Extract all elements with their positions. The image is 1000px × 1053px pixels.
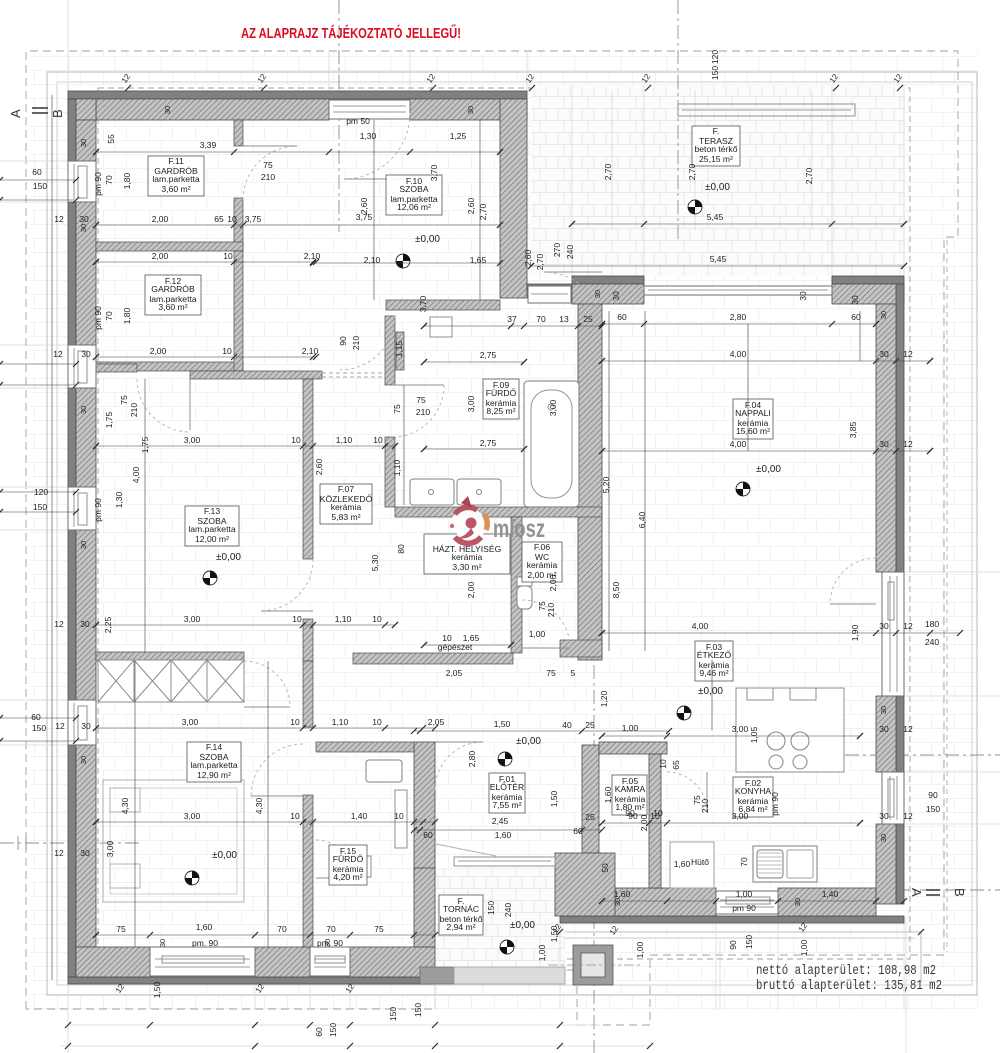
svg-text:FÜRDŐ: FÜRDŐ: [333, 854, 364, 864]
svg-text:2,00: 2,00: [639, 814, 649, 831]
svg-text:150: 150: [744, 935, 754, 949]
svg-text:A: A: [8, 109, 23, 118]
svg-text:2,60: 2,60: [466, 197, 476, 214]
svg-text:2,10: 2,10: [302, 346, 319, 356]
svg-text:10: 10: [372, 717, 382, 727]
svg-text:60: 60: [314, 1027, 324, 1037]
svg-text:30: 30: [163, 106, 172, 114]
svg-text:30: 30: [79, 224, 88, 232]
svg-text:3,60 m²: 3,60 m²: [158, 302, 187, 312]
svg-text:12,90 m²: 12,90 m²: [197, 770, 231, 780]
svg-text:2,70: 2,70: [687, 163, 697, 180]
svg-text:beton térkő: beton térkő: [695, 144, 738, 154]
svg-text:lam.parketta: lam.parketta: [188, 524, 236, 534]
svg-text:4,00: 4,00: [131, 466, 141, 483]
svg-text:2,25: 2,25: [103, 616, 113, 633]
svg-text:1,10: 1,10: [336, 435, 353, 445]
svg-text:210: 210: [351, 336, 361, 350]
svg-text:150: 150: [413, 1003, 423, 1017]
svg-text:30: 30: [466, 106, 475, 114]
svg-text:70: 70: [104, 175, 114, 185]
svg-text:Hütő: Hütő: [691, 857, 709, 867]
svg-text:lam.parketta: lam.parketta: [152, 174, 200, 184]
svg-text:10: 10: [222, 346, 232, 356]
svg-text:3,70: 3,70: [418, 295, 428, 312]
svg-text:5,45: 5,45: [707, 212, 724, 222]
svg-text:3,00: 3,00: [184, 435, 201, 445]
svg-text:2,45: 2,45: [492, 816, 509, 826]
svg-text:90: 90: [728, 940, 738, 950]
svg-text:30: 30: [593, 290, 602, 298]
svg-text:10: 10: [227, 214, 237, 224]
svg-text:30: 30: [879, 834, 888, 842]
svg-text:75: 75: [119, 395, 129, 405]
svg-text:3,00: 3,00: [184, 811, 201, 821]
svg-text:2,70: 2,70: [478, 203, 488, 220]
svg-text:10: 10: [653, 808, 663, 818]
svg-text:30: 30: [81, 349, 91, 359]
svg-text:ELŐTÉR: ELŐTÉR: [490, 782, 524, 792]
svg-text:50: 50: [600, 863, 610, 873]
svg-text:90: 90: [338, 336, 348, 346]
svg-text:2,10: 2,10: [364, 255, 381, 265]
svg-text:9,46 m²: 9,46 m²: [699, 668, 728, 678]
svg-text:1,00: 1,00: [537, 944, 547, 961]
svg-text:F.07: F.07: [338, 484, 354, 494]
svg-text:3,00: 3,00: [184, 614, 201, 624]
svg-text:1,20: 1,20: [599, 690, 609, 707]
svg-text:4,20 m²: 4,20 m²: [333, 872, 362, 882]
svg-text:210: 210: [261, 172, 275, 182]
svg-text:60: 60: [617, 312, 627, 322]
svg-text:90: 90: [928, 790, 938, 800]
svg-text:1,50: 1,50: [549, 790, 559, 807]
svg-text:1,25: 1,25: [450, 131, 467, 141]
svg-text:10: 10: [290, 717, 300, 727]
svg-text:30: 30: [613, 898, 622, 906]
svg-text:4,00: 4,00: [730, 349, 747, 359]
svg-text:5,30: 5,30: [370, 554, 380, 571]
svg-text:±0,00: ±0,00: [756, 464, 781, 475]
svg-text:1,00: 1,00: [622, 723, 639, 733]
svg-text:4,30: 4,30: [120, 797, 130, 814]
svg-text:12: 12: [53, 349, 63, 359]
svg-text:5: 5: [571, 668, 576, 678]
svg-text:37: 37: [507, 314, 517, 324]
svg-text:10: 10: [223, 251, 233, 261]
svg-text:±0,00: ±0,00: [516, 736, 541, 747]
svg-text:30: 30: [879, 724, 889, 734]
svg-text:kerámia: kerámia: [527, 560, 558, 570]
svg-text:60: 60: [851, 312, 861, 322]
svg-text:3,70: 3,70: [429, 164, 439, 181]
svg-text:240: 240: [565, 245, 575, 259]
svg-text:70: 70: [739, 857, 749, 867]
svg-text:65: 65: [214, 214, 224, 224]
svg-text:bruttó alapterület: 135,81 m2: bruttó alapterület: 135,81 m2: [756, 978, 942, 994]
svg-text:3,60 m²: 3,60 m²: [161, 184, 190, 194]
svg-text:2,70: 2,70: [804, 167, 814, 184]
svg-text:12: 12: [55, 721, 65, 731]
svg-text:B: B: [50, 109, 65, 118]
svg-text:12: 12: [903, 439, 913, 449]
svg-text:5,45: 5,45: [710, 254, 727, 264]
svg-text:±0,00: ±0,00: [212, 850, 237, 861]
svg-text:10: 10: [373, 435, 383, 445]
svg-text:5,83 m²: 5,83 m²: [331, 512, 360, 522]
svg-text:±0,00: ±0,00: [216, 552, 241, 563]
svg-text:75: 75: [374, 924, 384, 934]
svg-text:pm 50: pm 50: [346, 116, 370, 126]
svg-text:210: 210: [416, 407, 430, 417]
svg-text:SZOBA: SZOBA: [399, 184, 428, 194]
svg-text:2,80: 2,80: [467, 750, 477, 767]
svg-text:FÜRDŐ: FÜRDŐ: [486, 388, 517, 398]
svg-text:8,25 m²: 8,25 m²: [486, 406, 515, 416]
svg-text:TORNÁC: TORNÁC: [443, 904, 479, 914]
svg-text:1,60: 1,60: [495, 830, 512, 840]
svg-text:30: 30: [323, 939, 332, 947]
svg-text:12: 12: [54, 848, 64, 858]
svg-text:270: 270: [552, 243, 562, 257]
svg-text:A: A: [909, 888, 924, 897]
svg-text:2,60: 2,60: [523, 249, 533, 266]
svg-text:70: 70: [104, 311, 114, 321]
svg-text:30: 30: [80, 848, 90, 858]
svg-text:70: 70: [277, 924, 287, 934]
svg-text:pm 90: pm 90: [770, 792, 780, 816]
svg-text:3,00: 3,00: [732, 811, 749, 821]
svg-text:NAPPALI: NAPPALI: [735, 408, 771, 418]
svg-text:30: 30: [158, 939, 167, 947]
svg-text:75: 75: [546, 668, 556, 678]
svg-text:pm 90: pm 90: [732, 903, 756, 913]
svg-text:1,00: 1,00: [799, 939, 809, 956]
svg-text:30: 30: [79, 214, 89, 224]
svg-text:90: 90: [625, 808, 635, 818]
svg-text:1,05: 1,05: [749, 726, 759, 743]
svg-text:2,94 m²: 2,94 m²: [446, 922, 475, 932]
svg-text:12,06 m²: 12,06 m²: [397, 202, 431, 212]
svg-text:75: 75: [416, 395, 426, 405]
svg-text:1,15: 1,15: [394, 340, 404, 357]
svg-text:12: 12: [54, 214, 64, 224]
svg-text:2,00: 2,00: [548, 574, 558, 591]
svg-text:5,20: 5,20: [601, 476, 611, 493]
svg-text:4,00: 4,00: [730, 439, 747, 449]
svg-text:70: 70: [326, 924, 336, 934]
svg-text:12: 12: [903, 811, 913, 821]
svg-text:1,30: 1,30: [360, 131, 377, 141]
svg-text:4,00: 4,00: [692, 621, 709, 631]
svg-text:150: 150: [926, 804, 940, 814]
svg-text:30: 30: [79, 139, 88, 147]
svg-text:25: 25: [585, 720, 595, 730]
svg-text:pm 90: pm 90: [93, 306, 103, 330]
svg-text:2,80: 2,80: [730, 312, 747, 322]
svg-text:80: 80: [396, 544, 406, 554]
svg-text:30: 30: [611, 291, 621, 301]
svg-text:1,30: 1,30: [114, 491, 124, 508]
svg-text:30: 30: [879, 811, 889, 821]
svg-text:150: 150: [33, 181, 47, 191]
svg-text:30: 30: [79, 406, 88, 414]
svg-text:2,60: 2,60: [359, 197, 369, 214]
svg-text:15,60 m²: 15,60 m²: [736, 426, 770, 436]
svg-text:30: 30: [879, 621, 889, 631]
svg-text:F.: F.: [713, 126, 720, 136]
svg-text:12,00 m²: 12,00 m²: [195, 534, 229, 544]
svg-text:150: 150: [710, 66, 720, 80]
svg-text:150: 150: [32, 723, 46, 733]
svg-text:KONYHA: KONYHA: [735, 786, 772, 796]
svg-text:180: 180: [925, 619, 939, 629]
svg-text:1,10: 1,10: [335, 614, 352, 624]
svg-text:30: 30: [879, 706, 888, 714]
svg-text:F.06: F.06: [534, 542, 550, 552]
svg-text:KAMRA: KAMRA: [615, 784, 646, 794]
svg-text:ÉTKEZŐ: ÉTKEZŐ: [697, 650, 732, 660]
svg-text:2,75: 2,75: [480, 350, 497, 360]
svg-text:2,00: 2,00: [466, 581, 476, 598]
svg-text:75: 75: [116, 924, 126, 934]
svg-text:150: 150: [328, 1023, 338, 1037]
svg-text:1,00: 1,00: [736, 889, 753, 899]
svg-text:210: 210: [700, 799, 710, 813]
svg-text:2,05: 2,05: [428, 717, 445, 727]
svg-text:70: 70: [536, 314, 546, 324]
svg-text:GARDRÓB: GARDRÓB: [151, 284, 195, 294]
svg-text:40: 40: [562, 720, 572, 730]
svg-text:75: 75: [263, 160, 273, 170]
svg-text:1,60: 1,60: [603, 786, 613, 803]
svg-text:12: 12: [903, 724, 913, 734]
svg-text:3,85: 3,85: [848, 421, 858, 438]
svg-text:1,90: 1,90: [850, 624, 860, 641]
svg-text:25,15 m²: 25,15 m²: [699, 154, 733, 164]
svg-text:2,00: 2,00: [152, 251, 169, 261]
svg-text:2,70: 2,70: [603, 163, 613, 180]
svg-text:1,50: 1,50: [494, 719, 511, 729]
svg-text:±0,00: ±0,00: [415, 234, 440, 245]
svg-text:3,00: 3,00: [548, 399, 558, 416]
svg-text:7,55 m²: 7,55 m²: [492, 800, 521, 810]
svg-text:1,60: 1,60: [674, 859, 691, 869]
svg-text:±0,00: ±0,00: [698, 686, 723, 697]
svg-text:60: 60: [31, 712, 41, 722]
svg-text:3,30 m²: 3,30 m²: [452, 562, 481, 572]
svg-text:10: 10: [291, 435, 301, 445]
svg-text:2,70: 2,70: [535, 253, 545, 270]
svg-text:3,75: 3,75: [245, 214, 262, 224]
svg-text:12: 12: [54, 619, 64, 629]
svg-text:1,80: 1,80: [122, 172, 132, 189]
svg-text:F.11: F.11: [168, 156, 184, 166]
svg-text:150: 150: [33, 502, 47, 512]
svg-text:míosz: míosz: [493, 515, 545, 543]
svg-text:1,50: 1,50: [152, 981, 162, 998]
svg-text:8,50: 8,50: [611, 581, 621, 598]
svg-text:10: 10: [658, 759, 668, 769]
svg-text:30: 30: [879, 311, 888, 319]
svg-text:30: 30: [798, 291, 808, 301]
svg-text:1,80: 1,80: [122, 307, 132, 324]
svg-text:25: 25: [585, 812, 595, 822]
svg-text:30: 30: [80, 619, 90, 629]
svg-text:2,00: 2,00: [150, 346, 167, 356]
svg-text:3,39: 3,39: [200, 140, 217, 150]
svg-text:10: 10: [372, 614, 382, 624]
svg-text:1,75: 1,75: [104, 411, 114, 428]
svg-text:120: 120: [34, 487, 48, 497]
svg-text:30: 30: [879, 439, 889, 449]
svg-text:1,75: 1,75: [140, 436, 150, 453]
svg-text:120: 120: [710, 50, 720, 64]
svg-text:12: 12: [903, 349, 913, 359]
svg-text:55: 55: [106, 134, 116, 144]
svg-text:10: 10: [292, 614, 302, 624]
svg-text:60: 60: [573, 826, 583, 836]
svg-text:150: 150: [486, 901, 496, 915]
svg-text:10: 10: [290, 811, 300, 821]
svg-text:10: 10: [394, 811, 404, 821]
svg-text:±0,00: ±0,00: [705, 182, 730, 193]
svg-text:240: 240: [503, 903, 513, 917]
svg-text:210: 210: [129, 403, 139, 417]
svg-text:1,60: 1,60: [196, 922, 213, 932]
svg-text:60: 60: [423, 830, 433, 840]
svg-text:3,00: 3,00: [466, 395, 476, 412]
svg-text:2,05: 2,05: [446, 668, 463, 678]
svg-text:13: 13: [559, 314, 569, 324]
svg-text:F.14: F.14: [206, 742, 222, 752]
svg-text:pm 90: pm 90: [93, 498, 103, 522]
svg-text:pm. 90: pm. 90: [192, 938, 218, 948]
svg-text:F.13: F.13: [204, 506, 220, 516]
svg-text:3,00: 3,00: [732, 724, 749, 734]
svg-text:210: 210: [546, 603, 556, 617]
svg-text:1,65: 1,65: [470, 255, 487, 265]
svg-text:30: 30: [79, 541, 88, 549]
svg-text:lam.parketta: lam.parketta: [190, 760, 238, 770]
svg-text:2,75: 2,75: [480, 438, 497, 448]
svg-text:12: 12: [903, 621, 913, 631]
svg-text:gépészet: gépészet: [438, 642, 473, 652]
svg-text:kerámia: kerámia: [331, 502, 362, 512]
svg-text:nettó alapterület: 108,98 m2: nettó alapterület: 108,98 m2: [756, 963, 936, 979]
svg-text:AZ ALAPRAJZ TÁJÉKOZTATÓ JELLEG: AZ ALAPRAJZ TÁJÉKOZTATÓ JELLEGŰ!: [241, 24, 461, 42]
svg-text:1,40: 1,40: [822, 889, 839, 899]
svg-text:B: B: [952, 888, 967, 897]
svg-text:1,00: 1,00: [529, 629, 546, 639]
svg-text:pm 90: pm 90: [93, 172, 103, 196]
svg-text:6,40: 6,40: [637, 511, 647, 528]
svg-text:1,40: 1,40: [351, 811, 368, 821]
svg-text:30: 30: [79, 756, 88, 764]
svg-text:4,30: 4,30: [254, 797, 264, 814]
svg-text:30: 30: [879, 349, 889, 359]
svg-text:1,60: 1,60: [614, 889, 631, 899]
svg-text:±0,00: ±0,00: [510, 920, 535, 931]
svg-text:25: 25: [583, 314, 593, 324]
svg-text:3,00: 3,00: [182, 717, 199, 727]
svg-text:2,60: 2,60: [314, 458, 324, 475]
svg-text:2,10: 2,10: [304, 251, 321, 261]
svg-text:240: 240: [925, 637, 939, 647]
svg-text:60: 60: [32, 167, 42, 177]
svg-text:65: 65: [671, 760, 681, 770]
svg-text:1,00: 1,00: [635, 941, 645, 958]
svg-text:30: 30: [793, 898, 802, 906]
svg-text:kerámia: kerámia: [452, 552, 483, 562]
svg-text:3,00: 3,00: [105, 840, 115, 857]
svg-text:1,10: 1,10: [392, 459, 402, 476]
svg-text:1,10: 1,10: [332, 717, 349, 727]
svg-text:30: 30: [850, 295, 860, 305]
svg-text:75: 75: [392, 404, 402, 414]
svg-text:2,00: 2,00: [152, 214, 169, 224]
svg-text:30: 30: [81, 721, 91, 731]
svg-text:150: 150: [388, 1007, 398, 1021]
